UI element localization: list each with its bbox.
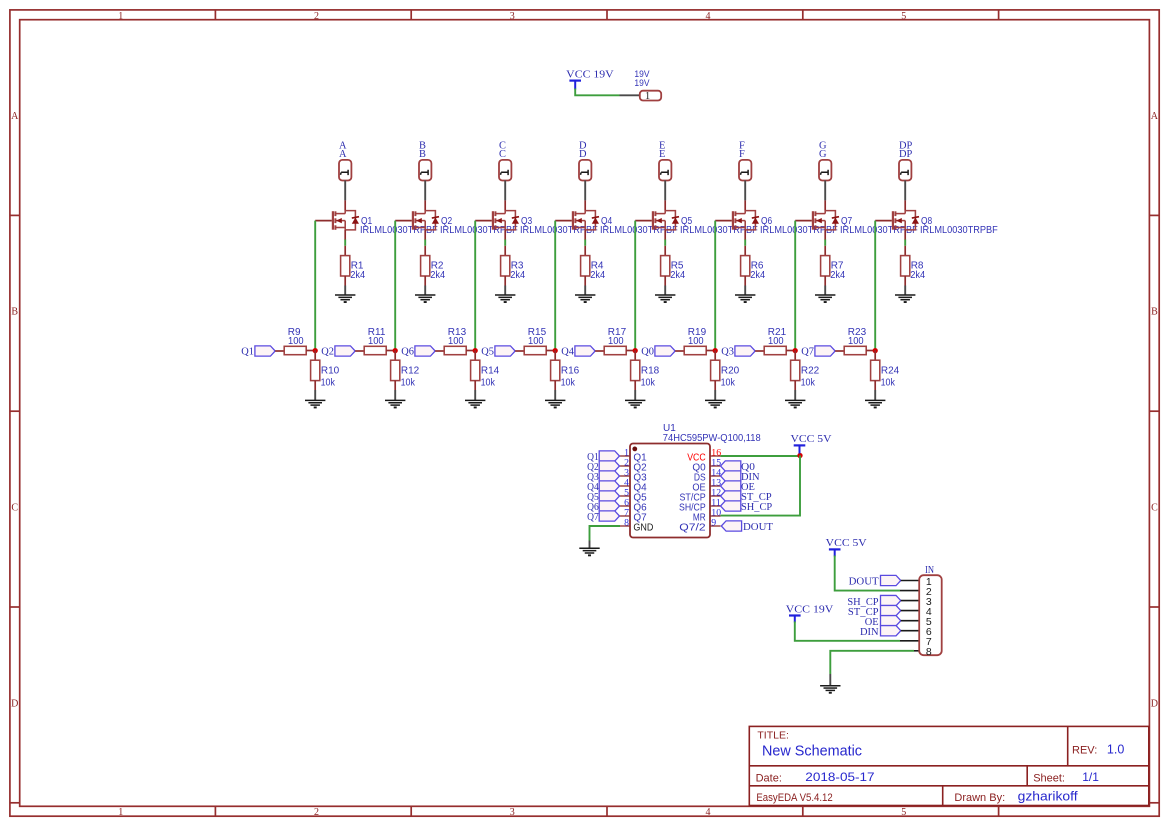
connector B (1 pin)	[419, 160, 431, 181]
wire Q source to R	[904, 230, 906, 240]
wire R to ground	[314, 381, 316, 390]
wire R to ground	[714, 381, 716, 390]
wire R to ground	[664, 276, 666, 286]
svg-text:VCC 19V: VCC 19V	[566, 68, 614, 80]
svg-text:R10: R10	[321, 366, 340, 377]
wire flag to R	[675, 350, 684, 352]
svg-text:gzharikoff: gzharikoff	[1018, 790, 1079, 804]
U1 pin 6 Q6	[620, 505, 631, 507]
power flag VCC 5V (bottom)	[829, 548, 841, 550]
svg-text:B: B	[419, 149, 426, 160]
svg-text:4: 4	[706, 11, 711, 22]
svg-text:R16: R16	[561, 366, 580, 377]
wire Q source to R	[824, 230, 826, 240]
gate pin	[555, 220, 572, 222]
net flag Q7	[599, 511, 619, 521]
wire Q source to R	[744, 230, 746, 240]
svg-text:REV:: REV:	[1072, 745, 1097, 757]
net flag ST_CP	[721, 491, 741, 501]
resistor R14 10k	[474, 351, 476, 361]
svg-text:New Schematic: New Schematic	[762, 743, 862, 759]
svg-text:10k: 10k	[881, 378, 896, 389]
svg-text:IRLML0030TRPBF: IRLML0030TRPBF	[440, 225, 518, 236]
svg-text:10k: 10k	[561, 378, 576, 389]
svg-text:10k: 10k	[481, 378, 496, 389]
ground	[305, 399, 325, 401]
svg-text:Drawn By:: Drawn By:	[954, 792, 1005, 804]
junction Q6	[473, 348, 478, 353]
svg-text:R12: R12	[401, 366, 420, 377]
U1 pin 4 Q4	[620, 485, 631, 487]
wire gate net	[794, 221, 796, 351]
svg-text:2k4: 2k4	[910, 270, 925, 281]
wire R to ground	[874, 381, 876, 390]
wire VCC to MR	[721, 456, 801, 516]
svg-text:Q7: Q7	[587, 511, 599, 523]
svg-text:8: 8	[926, 646, 932, 658]
gate pin	[475, 220, 492, 222]
wire R to ground	[794, 381, 796, 390]
svg-text:1: 1	[118, 11, 123, 22]
ground	[335, 294, 355, 296]
power flag VCC 5V (U1)	[794, 444, 806, 446]
wire gate net	[874, 221, 876, 351]
U1 pin 8 GND	[620, 525, 631, 527]
ground U1	[579, 547, 599, 549]
gate pin	[395, 220, 412, 222]
wire flag to R	[515, 350, 524, 352]
net flag SH_CP	[721, 501, 741, 511]
transistor Q7 IRLML0030TRPBF	[824, 200, 826, 210]
svg-text:IRLML0030TRPBF: IRLML0030TRPBF	[520, 225, 598, 236]
svg-text:2k4: 2k4	[590, 270, 605, 281]
wire gate net	[394, 221, 396, 351]
svg-text:EasyEDA V5.4.12: EasyEDA V5.4.12	[756, 792, 832, 804]
wire R to ground	[344, 276, 346, 286]
svg-text:DP: DP	[899, 149, 913, 160]
resistor R1 2k4	[341, 256, 350, 276]
wire R to junction	[786, 350, 795, 352]
svg-text:DIN: DIN	[860, 626, 879, 638]
resistor R21 100	[764, 346, 786, 354]
svg-text:TITLE:: TITLE:	[757, 730, 789, 742]
svg-text:8: 8	[624, 517, 629, 528]
svg-text:GND: GND	[633, 522, 653, 534]
resistor R11 100	[364, 346, 386, 354]
transistor Q8 IRLML0030TRPBF	[904, 200, 906, 210]
resistor R10 10k	[314, 351, 316, 361]
transistor Q6 IRLML0030TRPBF	[744, 200, 746, 210]
wire connector to Q drain	[344, 181, 346, 201]
ground	[735, 294, 755, 296]
net flag DIN	[721, 471, 741, 481]
connector C (1 pin)	[499, 160, 511, 181]
svg-text:3: 3	[510, 11, 515, 22]
wire connector to Q drain	[824, 181, 826, 201]
svg-text:SH_CP: SH_CP	[741, 501, 772, 513]
net flag DOUT	[721, 521, 741, 531]
svg-text:100: 100	[368, 336, 384, 347]
svg-text:C: C	[499, 149, 506, 160]
connector A (1 pin)	[339, 160, 351, 181]
wire R to junction	[546, 350, 555, 352]
connector G (1 pin)	[819, 160, 831, 181]
wire R to ground	[634, 381, 636, 390]
svg-text:Q6: Q6	[401, 346, 414, 358]
ground	[895, 294, 915, 296]
wire VCC19V to pin7	[795, 622, 900, 641]
U1 pin 5 Q5	[620, 495, 631, 497]
U1 pin 12 ST/CP	[710, 495, 721, 497]
junction Q0	[713, 348, 718, 353]
transistor Q5 IRLML0030TRPBF	[664, 200, 666, 210]
wire VCC19V to P1	[575, 89, 619, 96]
svg-text:2k4: 2k4	[430, 270, 445, 281]
ground	[815, 294, 835, 296]
wire gate net	[554, 221, 556, 351]
connector F (1 pin)	[739, 160, 751, 181]
svg-text:R18: R18	[641, 366, 660, 377]
svg-text:VCC 5V: VCC 5V	[826, 537, 867, 549]
resistor R13 100	[444, 346, 466, 354]
U1 pin 14 DS	[710, 475, 721, 477]
U1 pin 16 VCC	[710, 455, 721, 457]
net flag Q4	[599, 481, 619, 491]
wire R to ground	[584, 276, 586, 286]
svg-text:2: 2	[314, 807, 319, 818]
wire VCC5V to pin2	[835, 556, 900, 591]
ground	[655, 294, 675, 296]
svg-text:5: 5	[901, 807, 906, 818]
gate pin	[715, 220, 732, 222]
wire connector to Q drain	[744, 181, 746, 201]
net flag Q6	[599, 501, 619, 511]
gate pin	[635, 220, 652, 222]
power flag VCC 19V (bottom)	[789, 614, 801, 616]
net flag Q3	[599, 471, 619, 481]
resistor R19 100	[684, 346, 706, 354]
connector DP (1 pin)	[899, 160, 911, 181]
ground	[625, 399, 645, 401]
ground	[495, 294, 515, 296]
svg-text:10k: 10k	[721, 378, 736, 389]
gate pin	[795, 220, 812, 222]
ground	[785, 399, 805, 401]
svg-text:Q3: Q3	[721, 346, 734, 358]
junction VCC	[797, 453, 802, 458]
connector 19V (1 pin)	[640, 91, 661, 101]
svg-text:100: 100	[528, 336, 544, 347]
pin 1 dot	[632, 447, 637, 452]
svg-text:Sheet:: Sheet:	[1033, 772, 1065, 784]
svg-text:100: 100	[768, 336, 784, 347]
svg-text:Q2: Q2	[321, 346, 334, 358]
svg-text:100: 100	[448, 336, 464, 347]
wire connector to Q drain	[584, 181, 586, 201]
svg-text:2k4: 2k4	[350, 270, 365, 281]
svg-text:100: 100	[848, 336, 864, 347]
svg-text:F: F	[739, 149, 745, 160]
wire R to junction	[626, 350, 635, 352]
ground	[385, 399, 405, 401]
junction Q4	[633, 348, 638, 353]
resistor R8 2k4	[901, 256, 910, 276]
transistor Q4 IRLML0030TRPBF	[584, 200, 586, 210]
svg-text:IRLML0030TRPBF: IRLML0030TRPBF	[680, 225, 758, 236]
svg-text:2k4: 2k4	[750, 270, 765, 281]
svg-text:IRLML0030TRPBF: IRLML0030TRPBF	[360, 225, 438, 236]
junction Q1	[313, 348, 318, 353]
svg-text:1.0: 1.0	[1107, 743, 1124, 757]
resistor R22 10k	[794, 351, 796, 361]
junction Q3	[793, 348, 798, 353]
net flag Q5	[599, 491, 619, 501]
resistor R2 2k4	[421, 256, 430, 276]
wire Q source to R	[504, 230, 506, 240]
wire flag to R	[435, 350, 444, 352]
junction Q2	[393, 348, 398, 353]
svg-text:R14: R14	[481, 366, 500, 377]
net flag Q0	[721, 461, 741, 471]
ground	[415, 294, 435, 296]
wire gate net	[634, 221, 636, 351]
ground	[865, 399, 885, 401]
svg-text:G: G	[819, 149, 827, 160]
ground IN	[820, 685, 840, 687]
wire R to ground	[554, 381, 556, 390]
svg-text:Q4: Q4	[561, 346, 574, 358]
wire R to ground	[424, 276, 426, 286]
svg-text:1: 1	[645, 91, 650, 102]
resistor R6 2k4	[741, 256, 750, 276]
svg-text:DOUT: DOUT	[743, 521, 773, 533]
svg-text:100: 100	[688, 336, 704, 347]
wire R to junction	[306, 350, 315, 352]
ground	[545, 399, 565, 401]
svg-text:10k: 10k	[321, 378, 336, 389]
wire R to junction	[866, 350, 875, 352]
svg-text:1/1: 1/1	[1082, 770, 1099, 784]
resistor R4 2k4	[581, 256, 590, 276]
wire GND pin8	[590, 526, 621, 541]
transistor Q2 IRLML0030TRPBF	[424, 200, 426, 210]
wire connector to Q drain	[904, 181, 906, 201]
svg-text:Q7/2: Q7/2	[679, 522, 706, 534]
U1 pin 13 OE	[710, 485, 721, 487]
junction Q5	[553, 348, 558, 353]
svg-text:2: 2	[314, 11, 319, 22]
svg-text:2k4: 2k4	[830, 270, 845, 281]
wire flag to R	[355, 350, 364, 352]
ground	[575, 294, 595, 296]
svg-text:Date:: Date:	[756, 772, 782, 784]
svg-text:DOUT: DOUT	[849, 576, 879, 588]
svg-text:IRLML0030TRPBF: IRLML0030TRPBF	[760, 225, 838, 236]
svg-text:19V: 19V	[634, 78, 649, 88]
svg-text:A: A	[11, 111, 19, 122]
resistor R23 100	[844, 346, 866, 354]
wire Q source to R	[584, 230, 586, 240]
svg-text:9: 9	[711, 517, 716, 528]
svg-text:10k: 10k	[801, 378, 816, 389]
wire R to junction	[466, 350, 475, 352]
svg-text:VCC 5V: VCC 5V	[791, 433, 832, 445]
resistor R3 2k4	[501, 256, 510, 276]
svg-text:100: 100	[608, 336, 624, 347]
svg-text:E: E	[659, 149, 665, 160]
wire gate net	[714, 221, 716, 351]
U1 pin 2 Q2	[620, 465, 631, 467]
power flag VCC 19V (top)	[569, 79, 581, 81]
svg-text:D: D	[11, 698, 18, 709]
svg-text:IRLML0030TRPBF: IRLML0030TRPBF	[840, 225, 918, 236]
svg-text:100: 100	[288, 336, 304, 347]
resistor R24 10k	[874, 351, 876, 361]
svg-text:3: 3	[510, 807, 515, 818]
wire flag to R	[595, 350, 604, 352]
svg-text:C: C	[1151, 503, 1158, 514]
U1 pin 10 MR	[710, 515, 721, 517]
svg-text:D: D	[1151, 698, 1158, 709]
wire connector to Q drain	[504, 181, 506, 201]
U1 pin 9 Q7/2	[710, 525, 721, 527]
wire VCC pin16	[721, 455, 801, 457]
svg-text:74HC595PW-Q100,118: 74HC595PW-Q100,118	[663, 433, 761, 444]
U1 pin 7 Q7	[620, 515, 631, 517]
wire R to junction	[706, 350, 715, 352]
resistor R15 100	[524, 346, 546, 354]
svg-text:R22: R22	[801, 366, 820, 377]
svg-text:2018-05-17: 2018-05-17	[805, 770, 875, 784]
svg-text:A: A	[339, 149, 347, 160]
U1 pin 3 Q3	[620, 475, 631, 477]
svg-text:Q0: Q0	[641, 346, 654, 358]
wire flag to R	[755, 350, 764, 352]
wire flag to R	[275, 350, 284, 352]
svg-text:1: 1	[118, 807, 123, 818]
svg-text:5: 5	[901, 11, 906, 22]
wire Q source to R	[664, 230, 666, 240]
wire R to ground	[504, 276, 506, 286]
wire R to ground	[394, 381, 396, 390]
wire R to ground	[824, 276, 826, 286]
svg-text:D: D	[579, 149, 587, 160]
svg-text:R24: R24	[881, 366, 900, 377]
wire gate net	[474, 221, 476, 351]
net flag Q1	[599, 451, 619, 461]
wire Q source to R	[344, 230, 346, 240]
wire gate net	[314, 221, 316, 351]
resistor R5 2k4	[661, 256, 670, 276]
connector E (1 pin)	[659, 160, 671, 181]
transistor Q1 IRLML0030TRPBF	[344, 200, 346, 210]
svg-text:A: A	[1151, 111, 1159, 122]
svg-text:IRLML0030TRPBF: IRLML0030TRPBF	[920, 225, 998, 236]
transistor Q3 IRLML0030TRPBF	[504, 200, 506, 210]
resistor R20 10k	[714, 351, 716, 361]
svg-text:10k: 10k	[641, 378, 656, 389]
gate pin	[875, 220, 892, 222]
wire R to ground	[904, 276, 906, 286]
wire R to junction	[386, 350, 395, 352]
wire connector to Q drain	[664, 181, 666, 201]
net flag OE	[721, 481, 741, 491]
gate pin	[315, 220, 332, 222]
svg-text:B: B	[1151, 307, 1158, 318]
svg-text:R20: R20	[721, 366, 740, 377]
svg-text:Q7: Q7	[801, 346, 814, 358]
wire R to ground	[744, 276, 746, 286]
svg-text:B: B	[11, 307, 18, 318]
svg-text:2k4: 2k4	[670, 270, 685, 281]
svg-text:10k: 10k	[401, 378, 416, 389]
resistor R9 100	[284, 346, 306, 354]
wire pin8 to ground	[830, 651, 914, 674]
svg-text:Q5: Q5	[481, 346, 494, 358]
wire R to ground	[474, 381, 476, 390]
title block	[749, 726, 1149, 805]
U1 pin 15 Q0	[710, 465, 721, 467]
wire connector to Q drain	[424, 181, 426, 201]
wire flag to R	[835, 350, 844, 352]
ground	[465, 399, 485, 401]
resistor R17 100	[604, 346, 626, 354]
svg-text:VCC 19V: VCC 19V	[786, 603, 834, 615]
svg-text:IRLML0030TRPBF: IRLML0030TRPBF	[600, 225, 678, 236]
wire Q source to R	[424, 230, 426, 240]
ground	[705, 399, 725, 401]
U1 pin 11 SH/CP	[710, 505, 721, 507]
resistor R18 10k	[634, 351, 636, 361]
U1 pin 1 Q1	[620, 455, 631, 457]
svg-text:2k4: 2k4	[510, 270, 525, 281]
net flag Q2	[599, 461, 619, 471]
svg-text:C: C	[11, 503, 18, 514]
resistor R7 2k4	[821, 256, 830, 276]
connector D (1 pin)	[579, 160, 591, 181]
svg-text:4: 4	[706, 807, 711, 818]
junction Q7	[873, 348, 878, 353]
svg-text:Q1: Q1	[241, 346, 254, 358]
resistor R16 10k	[554, 351, 556, 361]
resistor R12 10k	[394, 351, 396, 361]
